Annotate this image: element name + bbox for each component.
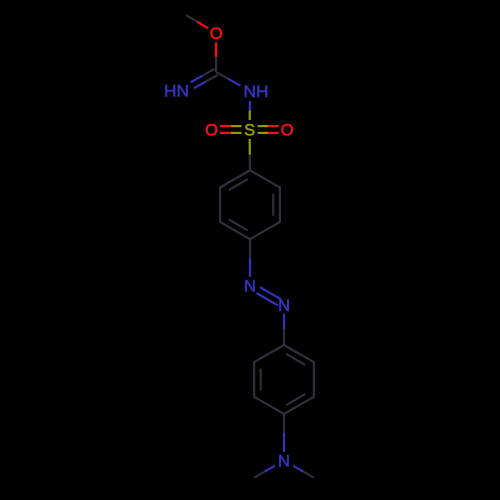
- bond N-S: [249, 101, 251, 120]
- double bond N=N (azo): [257, 287, 282, 305]
- ring2 inner double line LR-B: [286, 394, 305, 405]
- double bond S=O (left): [220, 126, 242, 133]
- bond S-C (to ring 1): [249, 139, 252, 170]
- bond O-C (ester O to amidine C): [215, 42, 217, 72]
- svg-text:S: S: [244, 122, 255, 140]
- svg-text:O: O: [210, 25, 223, 43]
- svg-text:N: N: [244, 277, 256, 295]
- svg-text:HN: HN: [164, 83, 189, 101]
- svg-text:O: O: [281, 122, 294, 140]
- ring1 inner double line UR-LR: [272, 194, 274, 216]
- ring2 inner double line T-UR: [286, 354, 305, 365]
- bond N-CH3 (left methyl): [254, 466, 275, 478]
- ring1 inner double line UL-T: [229, 179, 248, 190]
- ring1 inner double line B-LL: [229, 219, 248, 230]
- bond N-CH3 (right methyl): [293, 466, 314, 478]
- ring2 inner double line LL-UL: [260, 369, 262, 391]
- svg-text:NH: NH: [244, 83, 269, 101]
- svg-text:N: N: [278, 297, 290, 315]
- bond C-N (to NH): [216, 72, 240, 86]
- benzene ring 2 outline: [254, 345, 314, 414]
- benzene ring 1 outline: [220, 170, 280, 239]
- bond C-N (ring1 to azo N): [249, 239, 251, 277]
- double bond S=O (right): [258, 126, 279, 133]
- bond CH3-O (methoxy): [186, 15, 208, 28]
- double bond C=N (imine HN): [191, 69, 218, 88]
- bond N-C (azo to ring2): [283, 314, 285, 345]
- svg-text:N: N: [278, 453, 290, 471]
- svg-text:O: O: [205, 122, 218, 140]
- bond C-N (ring2 to dimethylamino N): [283, 414, 285, 452]
